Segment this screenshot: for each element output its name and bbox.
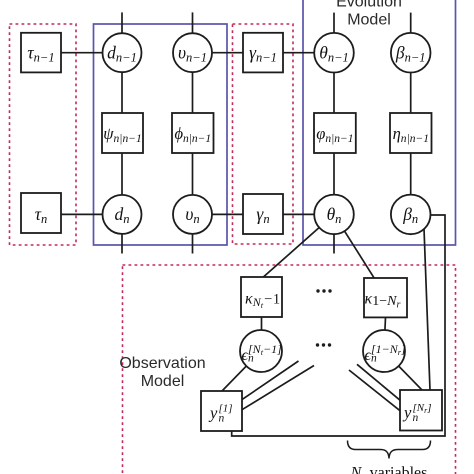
node circle theta_n-1 — [314, 33, 354, 73]
node circle theta_n — [314, 195, 354, 235]
node circle v_n-1 — [173, 33, 212, 72]
node square psi_n|n-1 — [102, 113, 143, 153]
svg-text:[Nr]: [Nr] — [413, 402, 432, 415]
label y_n_Nr — [402, 402, 432, 424]
wire theta_n to kappa_Nt-1 — [263, 214, 335, 277]
svg-text:Nr variables: Nr variables — [350, 465, 428, 474]
wire stub above beta_n-1 — [410, 13, 412, 34]
wire tau_n to d_n — [61, 213, 103, 215]
wire eps_n_1-Nr to y_n_Nr — [384, 351, 422, 390]
dashed red box tau-column (prior model) — [10, 24, 77, 245]
svg-text:[Nt−1]: [Nt−1] — [248, 342, 282, 357]
svg-text:y: y — [208, 404, 218, 423]
wire kappa_Nt-1 to eps_n_Nt-1 — [261, 317, 263, 340]
node circle d_n — [103, 195, 142, 234]
wire beta_n to y_n_Nr — [424, 229, 430, 391]
node square tau_n-1 — [21, 33, 61, 73]
wire psi to d_n — [121, 153, 123, 196]
wire beta_n routed to y_n_1 (right, down, left, up) — [232, 215, 445, 436]
wire y_n_Nr to hidden eps (upper) — [357, 364, 400, 400]
wire stub above theta_n-1 — [333, 13, 335, 34]
wire v_n to gamma_n — [211, 213, 243, 215]
node square phi_n|n-1 — [172, 113, 214, 153]
wire theta_n to kappa_1-Nr — [334, 214, 374, 277]
node square kappa_Nt-1 — [241, 277, 282, 317]
wire stub below v_n — [192, 234, 194, 254]
wire theta_n-1 to varphi — [333, 72, 335, 114]
svg-text:[1−Nr]: [1−Nr] — [371, 342, 406, 357]
wire v_n-1 to gamma_n-1 — [211, 52, 243, 54]
ellipsis dots between epsilon circles — [316, 343, 331, 346]
text Evolution Model — [336, 0, 402, 29]
wire kappa_1-Nr to eps_n_1-Nr — [385, 317, 386, 340]
node square kappa_1-Nr — [364, 278, 407, 317]
node square varphi_n|n-1 — [314, 113, 356, 153]
wire v_n-1 to phi — [192, 72, 194, 114]
label eps_n_Nt-1 — [242, 342, 283, 365]
svg-text:Evolution: Evolution — [336, 0, 402, 11]
text Observation Model — [119, 355, 205, 390]
node square eta_n|n-1 — [390, 113, 432, 153]
node circle d_n-1 — [103, 33, 142, 72]
svg-text:κNt−1: κNt−1 — [245, 291, 280, 311]
svg-text:[1]: [1] — [219, 403, 233, 415]
wire tau_n-1 to d_n-1 — [61, 52, 103, 54]
wire varphi to theta_n — [333, 153, 335, 196]
svg-text:Model: Model — [141, 373, 185, 390]
node circle eps_n_Nt-1 — [240, 330, 282, 372]
wire y_n_1 to hidden eps (lower) — [242, 366, 314, 410]
node square y_n_1 — [201, 391, 242, 431]
node square tau_n — [21, 193, 61, 233]
ellipsis dots between kappa squares — [316, 289, 331, 292]
wire stub above v_n-1 — [192, 12, 194, 34]
wire beta_n-1 to eta — [410, 72, 412, 114]
wire gamma_n to theta_n — [283, 213, 315, 215]
node square gamma_n — [243, 194, 283, 234]
label eps_n_1-Nr — [365, 342, 407, 365]
node square y_n_Nr — [400, 390, 442, 431]
dashed red box gamma-column — [233, 24, 294, 244]
blue box Evolution Model — [303, 0, 456, 245]
dashed red box Observation Model — [123, 265, 456, 474]
svg-text:Observation: Observation — [119, 355, 205, 372]
wire phi to v_n — [192, 153, 194, 196]
wire eta to beta_n — [410, 153, 412, 196]
svg-text:Model: Model — [347, 12, 391, 29]
blue box d-v columns — [94, 24, 228, 245]
node square gamma_n-1 — [243, 33, 283, 73]
wire stub below theta_n — [333, 234, 335, 254]
label y_n_1 — [208, 403, 233, 425]
node circle eps_n_1-Nr — [363, 330, 405, 372]
node circle beta_n — [391, 195, 431, 235]
wire stub above d_n-1 — [121, 12, 123, 34]
wire stub below d_n — [121, 234, 123, 254]
wire y_n_1 to hidden eps (upper) — [242, 361, 299, 400]
wire eps_n_Nt-1 to y_n_1 — [222, 351, 261, 391]
wire y_n_Nr to hidden eps (lower) — [349, 370, 400, 411]
brace under y nodes — [348, 441, 431, 459]
svg-text:y: y — [402, 403, 412, 422]
wire gamma_n-1 to theta_n-1 — [283, 52, 315, 54]
node circle beta_n-1 — [391, 33, 431, 73]
node circle v_n — [173, 195, 212, 234]
wire d_n-1 to psi — [121, 72, 123, 114]
